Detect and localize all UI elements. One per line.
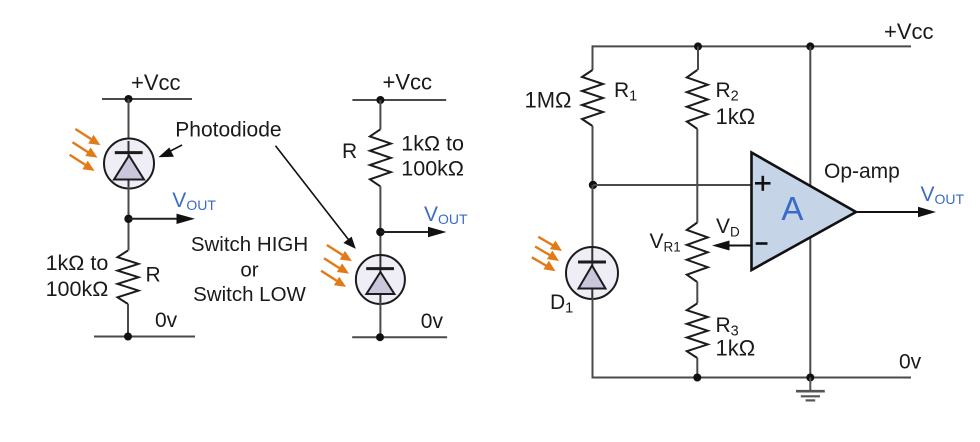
- svg-text:+Vcc: +Vcc: [383, 70, 433, 95]
- resistor R (middle): [370, 129, 391, 186]
- label Op-amp: [824, 160, 900, 183]
- node Vout label (right): [921, 183, 965, 207]
- resistor R label (middle): [342, 140, 357, 163]
- svg-text:1kΩ: 1kΩ: [716, 104, 756, 129]
- node 0v label (middle): [421, 310, 444, 333]
- wire Vout arrow (middle): [380, 227, 446, 237]
- junction dot R3/0v rail: [693, 374, 701, 382]
- ground symbol: [796, 378, 825, 401]
- junction dot rail/R2: [694, 42, 702, 50]
- svg-text:100kΩ: 100kΩ: [401, 156, 464, 180]
- svg-text:or: or: [240, 259, 258, 282]
- svg-text:Photodiode: Photodiode: [175, 119, 281, 142]
- wire 0v rail (left): [94, 336, 195, 338]
- wire input node to op-amp plus input: [593, 184, 752, 186]
- svg-text:+Vcc: +Vcc: [884, 19, 934, 44]
- op-amp U1: [752, 153, 857, 271]
- wire R2 to VR1: [696, 129, 698, 223]
- wire photodiode to 0v rail (middle): [379, 302, 381, 337]
- wire R3 to 0v rail: [696, 358, 698, 378]
- junction dot on middle 0v rail: [376, 333, 384, 341]
- resistor R (left): [118, 251, 139, 305]
- light arrows at left photodiode: [70, 129, 101, 171]
- resistor R3 label: [716, 314, 756, 361]
- node +Vcc label (right): [884, 19, 934, 44]
- wiper arrow from op-amp minus input to VR1: [712, 241, 752, 251]
- wire rail to R2: [697, 46, 699, 70]
- svg-text:0v: 0v: [421, 310, 444, 333]
- light arrows at photodiode D1: [532, 237, 562, 271]
- resistor R2: [687, 70, 708, 129]
- label Switch HIGH or Switch LOW: [191, 233, 308, 306]
- wire +Vcc rail (middle): [352, 99, 446, 101]
- arrow Photodiode label to left photodiode: [158, 145, 182, 157]
- svg-text:Op-amp: Op-amp: [824, 160, 900, 183]
- value label 1MΩ: [525, 88, 572, 113]
- arrow Photodiode label to middle photodiode: [276, 146, 356, 249]
- photodiode D1: [566, 247, 618, 299]
- svg-text:1MΩ: 1MΩ: [525, 88, 572, 113]
- wire rail corner to R1: [592, 45, 594, 70]
- resistor R3: [687, 303, 708, 358]
- junction dot rail/supply line: [806, 42, 814, 50]
- wire 0v rail (right): [592, 377, 912, 379]
- node Vout junction dot (left): [124, 215, 132, 223]
- svg-text:R: R: [146, 264, 161, 287]
- junction dot on left +Vcc rail: [125, 95, 133, 103]
- label VR1: [650, 230, 681, 255]
- svg-text:1kΩ: 1kΩ: [716, 336, 756, 361]
- node Vout junction dot (middle): [376, 228, 384, 236]
- wire input node down to photodiode D1: [592, 185, 594, 248]
- wire +Vcc rail (left): [102, 98, 192, 100]
- wire D1 to 0v rail corner: [592, 298, 594, 378]
- wire 0v rail (middle): [352, 336, 447, 338]
- photodiode PD2 (middle): [356, 255, 405, 304]
- light arrows at middle photodiode: [321, 245, 352, 287]
- svg-text:1kΩ to: 1kΩ to: [401, 132, 464, 156]
- node 0v label (right): [899, 351, 922, 374]
- junction dot ground/0v rail: [806, 374, 814, 382]
- svg-text:A: A: [781, 190, 803, 227]
- svg-text:Switch LOW: Switch LOW: [193, 283, 306, 306]
- label Photodiode: [175, 119, 281, 142]
- wire VR1 to R3: [696, 282, 698, 303]
- wire from rail to photodiode (left): [128, 99, 130, 140]
- wire rail to resistor (middle): [379, 100, 381, 129]
- resistor R1 label: [614, 79, 637, 105]
- photodiode PD1 (left): [104, 139, 154, 189]
- label D1: [550, 291, 573, 317]
- node +Vcc label (middle): [383, 70, 433, 95]
- node Vout label (middle): [424, 203, 468, 227]
- svg-text:1kΩ to: 1kΩ to: [46, 251, 109, 275]
- svg-text:Switch HIGH: Switch HIGH: [191, 233, 308, 256]
- node +Vcc label (left): [131, 70, 181, 95]
- value label 1kΩ to 100kΩ (left): [46, 251, 109, 301]
- label VD: [716, 215, 740, 240]
- node 0v label (left): [155, 309, 178, 332]
- node Vout label (left): [172, 189, 216, 213]
- wire photodiode to output node (left): [128, 186, 130, 251]
- wire supply line top rail to 0v rail: [809, 46, 811, 377]
- svg-text:R: R: [342, 140, 357, 163]
- junction dot on left 0v rail: [124, 333, 132, 341]
- svg-text:0v: 0v: [899, 351, 922, 374]
- svg-text:0v: 0v: [155, 309, 178, 332]
- wire resistor to output node (middle): [379, 186, 381, 255]
- svg-text:100kΩ: 100kΩ: [46, 277, 109, 301]
- svg-text:+Vcc: +Vcc: [131, 70, 181, 95]
- wire resistor to 0v rail (left): [127, 304, 129, 337]
- wire +Vcc rail (right): [592, 45, 911, 47]
- wire Vout arrow (left): [129, 214, 196, 224]
- potentiometer VR1: [687, 223, 708, 283]
- junction dot input node: [589, 181, 597, 189]
- resistor R2 label: [716, 79, 756, 129]
- wire op-amp output arrow: [856, 207, 936, 217]
- junction dot on middle +Vcc rail: [376, 96, 384, 104]
- resistor R label (left): [146, 264, 161, 287]
- value label 1kΩ to 100kΩ (middle): [401, 132, 464, 181]
- wire R1 to input node: [592, 126, 594, 185]
- resistor R1: [582, 70, 603, 126]
